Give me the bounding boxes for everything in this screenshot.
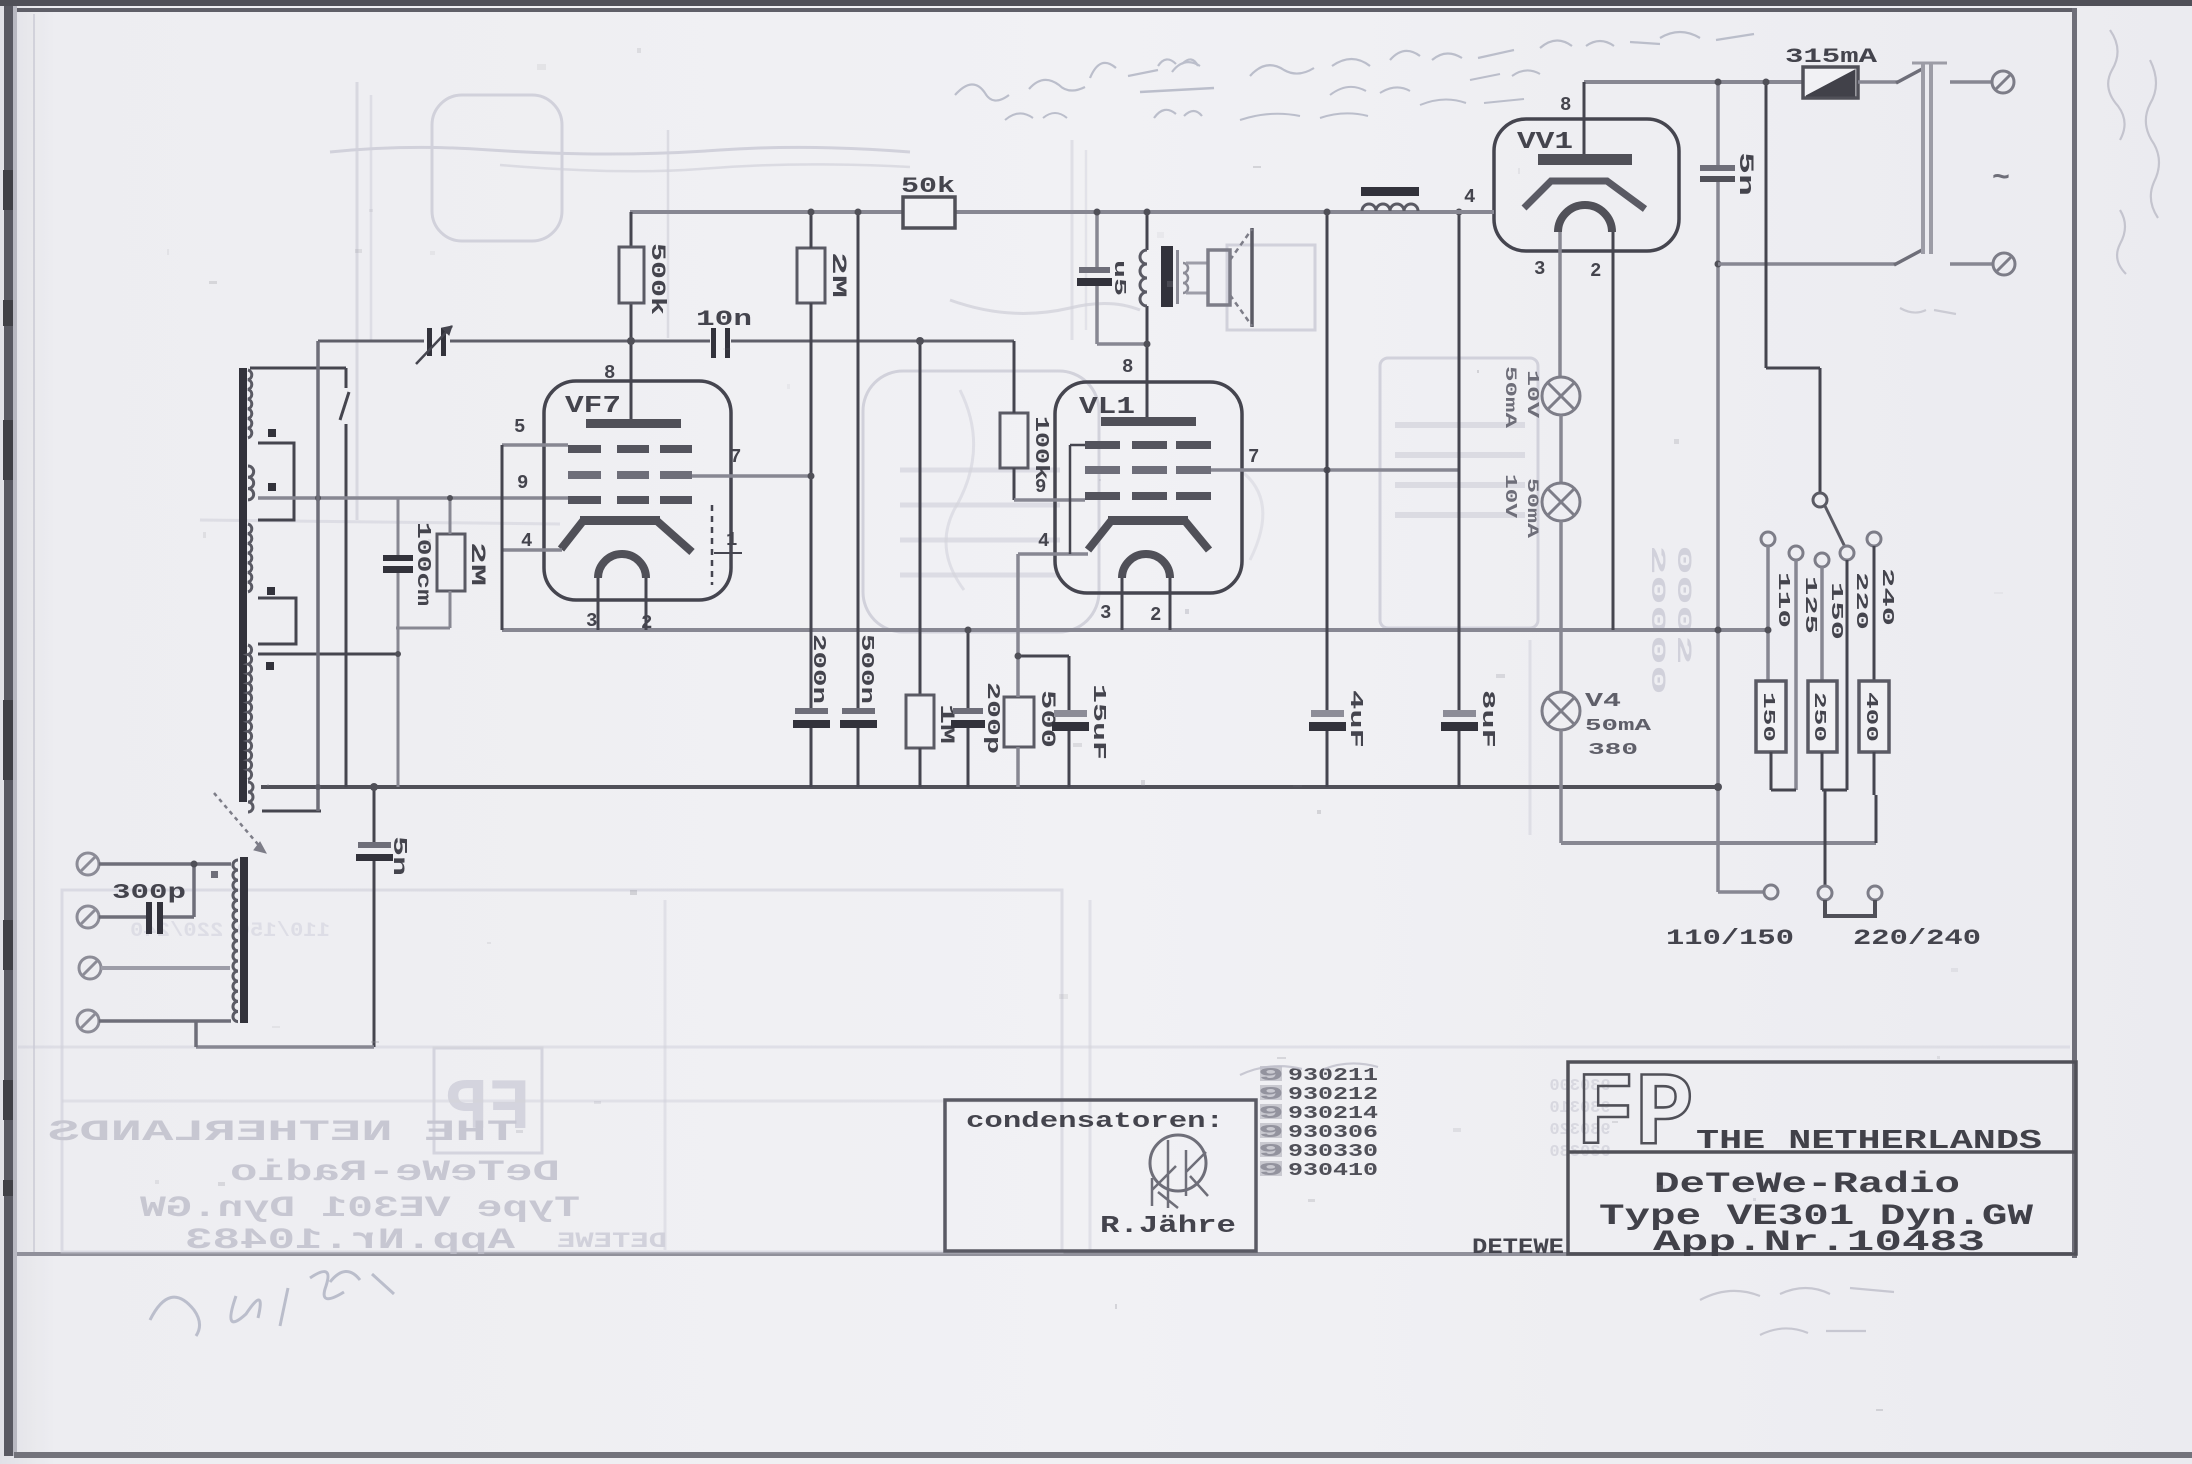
antenna coil winding L1 mid	[248, 466, 254, 500]
wire VL1 pin9	[1014, 498, 1085, 502]
VL1 cathode left arm	[1088, 521, 1111, 550]
wire VV1 pin2 down x=1613	[1612, 232, 1615, 630]
wire antenna coil top to band switch	[250, 367, 346, 370]
resistor 500k anode load box	[619, 247, 644, 303]
wire x=920 from grid bus	[919, 341, 922, 695]
VV1 cathode arc	[1558, 205, 1612, 232]
output transformer primary winding	[1146, 212, 1149, 250]
wire 500n bottom	[857, 728, 860, 787]
VF7 cathode right arm	[657, 521, 692, 552]
wire 15uF top	[1068, 656, 1071, 710]
selector contact 240	[1867, 532, 1881, 546]
wire VL1 pin4	[1018, 552, 1088, 556]
wire x=858 from HT bus	[857, 212, 860, 710]
wire 15uF bottom	[1068, 731, 1071, 787]
wire 100k bottom to VL1 pin9	[1013, 468, 1016, 500]
VL1 cathode right arm	[1185, 521, 1209, 550]
wire coil tap to VF7 grid (pin 9 net)	[258, 496, 568, 500]
wire heater bus y=630	[502, 628, 1768, 632]
wire fuse to switch pole1	[1858, 80, 1898, 84]
wire middle output contact feed	[1824, 790, 1827, 886]
wire x=968 detector cap from heater bus	[967, 630, 970, 708]
jumper bracket 220/240	[1825, 900, 1875, 916]
wire 300p to terminal1 net	[163, 915, 194, 919]
wire VF7 cathode line x=502	[501, 445, 504, 630]
resistor 250 box	[1808, 681, 1837, 752]
wire VF7 anode up x=631	[630, 212, 633, 247]
tube VF7 envelope	[544, 381, 731, 600]
capacitor 300p plates	[146, 902, 152, 934]
wire VV1 pin8 anode up	[1583, 82, 1586, 154]
aerial coil core bar	[240, 857, 248, 1023]
antenna coil winding L1 upper	[248, 370, 252, 438]
coil tap mark 2	[268, 483, 276, 491]
wire VF7 pin7 to 2M node	[692, 474, 811, 478]
VL1 cathode arc	[1122, 554, 1170, 578]
capacitor 5n tone plates	[1079, 267, 1110, 273]
wire grid leak bottom	[397, 573, 400, 654]
VF7 cathode arc	[598, 554, 646, 578]
VF7 grid dashes	[568, 445, 601, 453]
coil tap mark 3	[267, 587, 275, 595]
wire 5000 bottom	[1016, 747, 1020, 787]
antenna coil winding L1 lower	[248, 524, 252, 592]
wire VL1 anode pin8 up	[1146, 306, 1149, 417]
aerial terminal 3	[79, 957, 101, 979]
condensatoren box	[945, 1100, 1256, 1251]
wire tap y=654 to grid leak	[258, 653, 398, 656]
resistor 150 box	[1756, 681, 1786, 752]
resistor 400 box	[1859, 681, 1889, 752]
wire grid bus y=341 left segment	[318, 340, 424, 343]
wire terminal2 to 300p	[99, 915, 146, 919]
wire 8uF bottom	[1458, 731, 1461, 787]
wire 2M top	[449, 498, 452, 534]
signature circle R.Jahre	[1150, 1135, 1206, 1191]
selector contact 125	[1789, 546, 1803, 560]
tube VL1 envelope	[1055, 382, 1242, 593]
wire lamp return y=843	[1561, 841, 1876, 845]
wire 2M vertical x=811	[810, 212, 813, 248]
wire contact125 down	[1794, 560, 1798, 790]
output contact 220/240 mid	[1818, 886, 1832, 900]
wire grid leak top	[397, 498, 400, 555]
wire tone cap from HT bus x=1097	[1095, 212, 1099, 270]
wire switch pole1 to plug	[1950, 80, 1992, 84]
wire 200p bottom	[967, 728, 970, 787]
output contact 110/150 left	[1764, 885, 1778, 899]
wire VF7 pin4	[502, 548, 562, 552]
wire vertical x=318 from grid bus to coil tap	[316, 341, 320, 811]
wire VL1 pin3 down	[1121, 578, 1124, 630]
VF7 internal shield dashed pin1	[711, 505, 714, 585]
wire contact220 down	[1846, 560, 1849, 790]
VL1 grid dashes	[1085, 441, 1120, 449]
capacitor 100cm plates	[383, 555, 413, 561]
wire contact110 down	[1766, 546, 1770, 681]
wire 5n down to selector	[1716, 182, 1720, 892]
wire contact240 down	[1873, 546, 1876, 681]
wire grid bus y=341 mid segment	[450, 340, 710, 343]
wire terminal3	[101, 966, 230, 970]
capacitor 5000 box element	[1004, 697, 1034, 747]
mains plug terminal bottom	[1993, 253, 2015, 275]
wire top mains bus y=82	[1584, 80, 1804, 84]
wire 4uF bottom	[1326, 731, 1329, 787]
coil tap bracket lower	[258, 598, 296, 644]
wire VL1 pin7 to 8uF node	[1211, 468, 1459, 472]
wire mains pole 2 y=264	[1718, 262, 1896, 266]
wire 5n aerial top	[373, 787, 376, 842]
capacitor 5n aerial plates	[358, 842, 391, 848]
capacitor 15uF electrolytic plates	[1054, 710, 1087, 717]
selector contact 150	[1815, 553, 1829, 567]
wire 5n aerial bottom	[373, 861, 376, 1047]
wire switch pole2 to plug	[1950, 262, 1993, 266]
antenna coil winding L2 end	[248, 782, 253, 812]
VL1 anode bar	[1101, 417, 1196, 426]
aerial coil winding	[233, 860, 238, 1022]
wire x=1327 from HT bus	[1326, 212, 1329, 713]
wire VV1 pin4 from choke	[1420, 210, 1494, 214]
wire lamp chain x=1561	[1558, 232, 1562, 377]
wire VF7 pin5	[502, 443, 568, 447]
speaker driver box	[1208, 250, 1230, 305]
wire V4 bottom to lamp return	[1559, 730, 1563, 843]
trimmer capacitor plates	[427, 328, 432, 356]
wire x=1766 to selector wiper	[1765, 82, 1768, 368]
capacitor 8uF plates	[1443, 710, 1476, 717]
wire terminal1	[99, 862, 231, 866]
wire x=1018 VL1 pin4 down	[1016, 554, 1020, 697]
lamp La1 10V 50mA	[1542, 377, 1580, 415]
wire coil bottom tap y=811 L to bus	[262, 810, 321, 813]
tube VV1 envelope	[1494, 119, 1679, 251]
capacitor 200n plates	[795, 708, 828, 714]
wire link to 15uF	[1018, 655, 1069, 658]
title block divider	[1568, 1150, 2076, 1154]
aerial terminal 1	[77, 853, 99, 875]
antenna coil core bar	[239, 368, 247, 802]
switch link bars	[1921, 64, 1925, 254]
VV1 anode bar	[1538, 154, 1632, 165]
resistor 1M box	[906, 695, 934, 748]
band switch S1	[345, 368, 348, 388]
mains switch pole2 blade	[1894, 250, 1922, 265]
wire VF7 pin3 down	[597, 578, 600, 630]
lamp V4 50mA	[1542, 692, 1580, 730]
wire terminal4	[99, 1019, 231, 1023]
wire x=1459 from HT bus	[1458, 212, 1461, 713]
lamp La2 10V 50mA	[1542, 483, 1580, 521]
wire between lamps	[1559, 415, 1563, 483]
resistor 50k series box	[903, 197, 955, 228]
output transformer core bar	[1161, 246, 1173, 307]
VL1 cathode bar	[1108, 516, 1188, 525]
mains plug terminal top	[1992, 71, 2014, 93]
wire left output contact feed	[1718, 890, 1764, 894]
wire 200n bottom	[810, 728, 813, 787]
selector wiper contact	[1813, 493, 1827, 507]
resistor 100k box	[1000, 413, 1028, 468]
wire terminal4 stub to 5n net	[194, 1021, 198, 1047]
selector contact 110	[1761, 532, 1775, 546]
coil tap mark 4	[266, 662, 274, 670]
VF7 cathode bar	[580, 516, 660, 525]
speaker voice coil link	[1186, 262, 1208, 265]
capacitor 4uF plates	[1311, 710, 1344, 717]
capacitor 500n plates	[842, 708, 875, 714]
choke winding	[1362, 204, 1418, 211]
wire VL1 grid1 link	[1070, 444, 1085, 447]
output contact 220/240 right	[1868, 886, 1882, 900]
wire 2M bottom join	[449, 591, 452, 628]
mains switch pole1 blade	[1896, 68, 1924, 83]
wire 1M bottom	[919, 748, 922, 787]
selector wiper arm	[1825, 506, 1845, 547]
wire 150 bottom tie	[1770, 752, 1773, 790]
wire contact150 down	[1820, 567, 1824, 681]
wire VF7 pin2 down	[645, 578, 648, 630]
selector contact 220	[1840, 546, 1854, 560]
trimmer arrow	[416, 326, 452, 364]
coil tap bracket upper	[258, 443, 294, 520]
wire 100k top	[1013, 341, 1016, 413]
fuse 315mA	[1803, 67, 1858, 98]
aerial terminal 2	[77, 906, 99, 928]
wire tone cap bottom L	[1095, 286, 1099, 344]
antenna coil winding L2	[248, 645, 252, 779]
capacitor 200p plates	[953, 708, 983, 714]
wire x=1718 mains line	[1716, 82, 1720, 168]
aerial terminal 4	[77, 1010, 99, 1032]
output transformer secondary scallops	[1183, 263, 1188, 293]
wire 250 bottom tie	[1821, 752, 1824, 790]
capacitor 10n series plates	[711, 328, 716, 358]
choke core bar	[1361, 187, 1419, 196]
wire to lamp V4	[1559, 521, 1563, 692]
wire grid bus y=341 right segment	[731, 340, 1014, 343]
VF7 cathode left arm	[561, 521, 583, 549]
speaker horn	[1250, 228, 1254, 327]
capacitor 5n mains plates	[1700, 165, 1735, 171]
wire VL1 pin2 down	[1169, 578, 1172, 630]
resistor 2M grid leak box	[437, 534, 465, 591]
VF7 anode bar	[586, 419, 681, 428]
resistor 2M box	[797, 248, 825, 303]
coil tap mark 1	[268, 429, 276, 437]
wire 400 bottom tie	[1873, 752, 1876, 795]
wire bottom return bus y=787	[261, 785, 1721, 789]
VV1 grid hat	[1524, 181, 1645, 209]
title block outer box	[1568, 1062, 2076, 1254]
wire top HT bus y=212	[630, 210, 1494, 214]
